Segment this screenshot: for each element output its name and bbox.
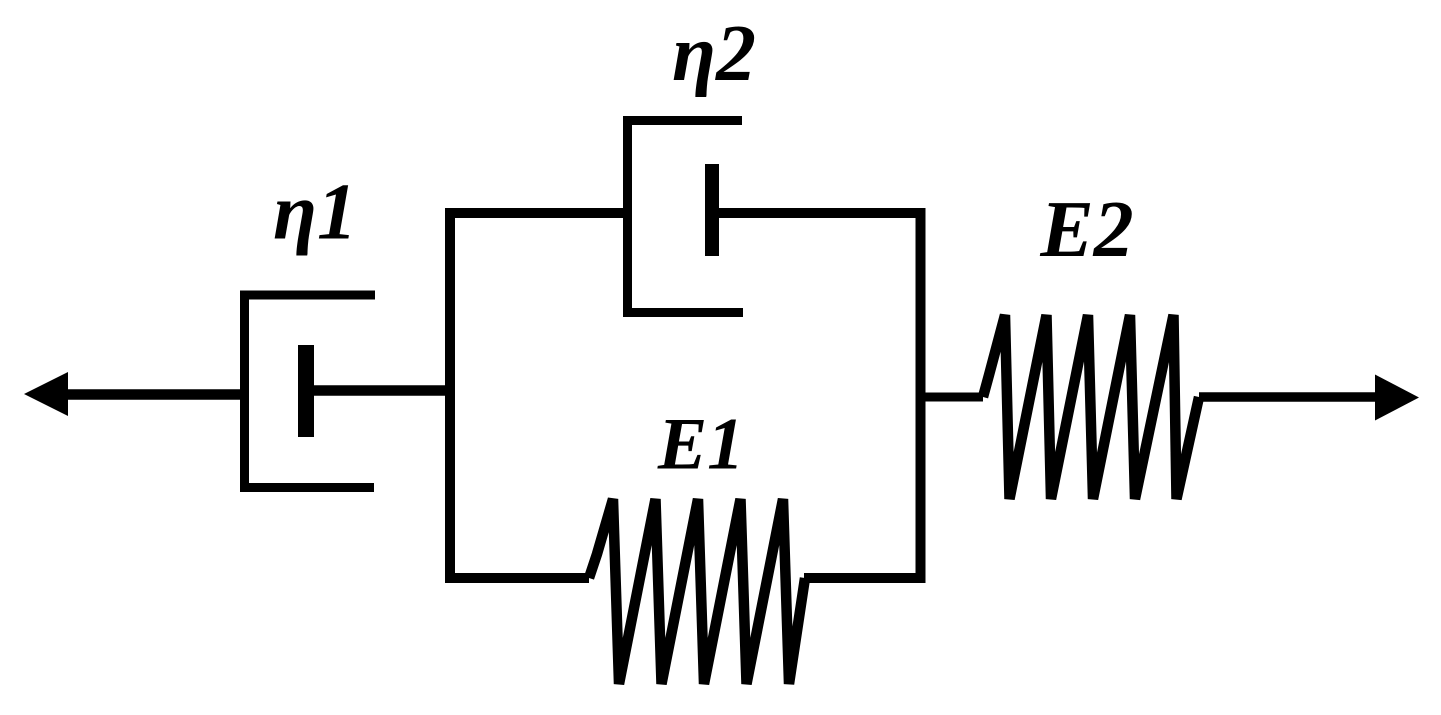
- svg-text:E2: E2: [1039, 186, 1133, 274]
- svg-text:η1: η1: [273, 169, 357, 257]
- svg-text:η2: η2: [672, 10, 756, 98]
- svg-text:E1: E1: [657, 404, 744, 486]
